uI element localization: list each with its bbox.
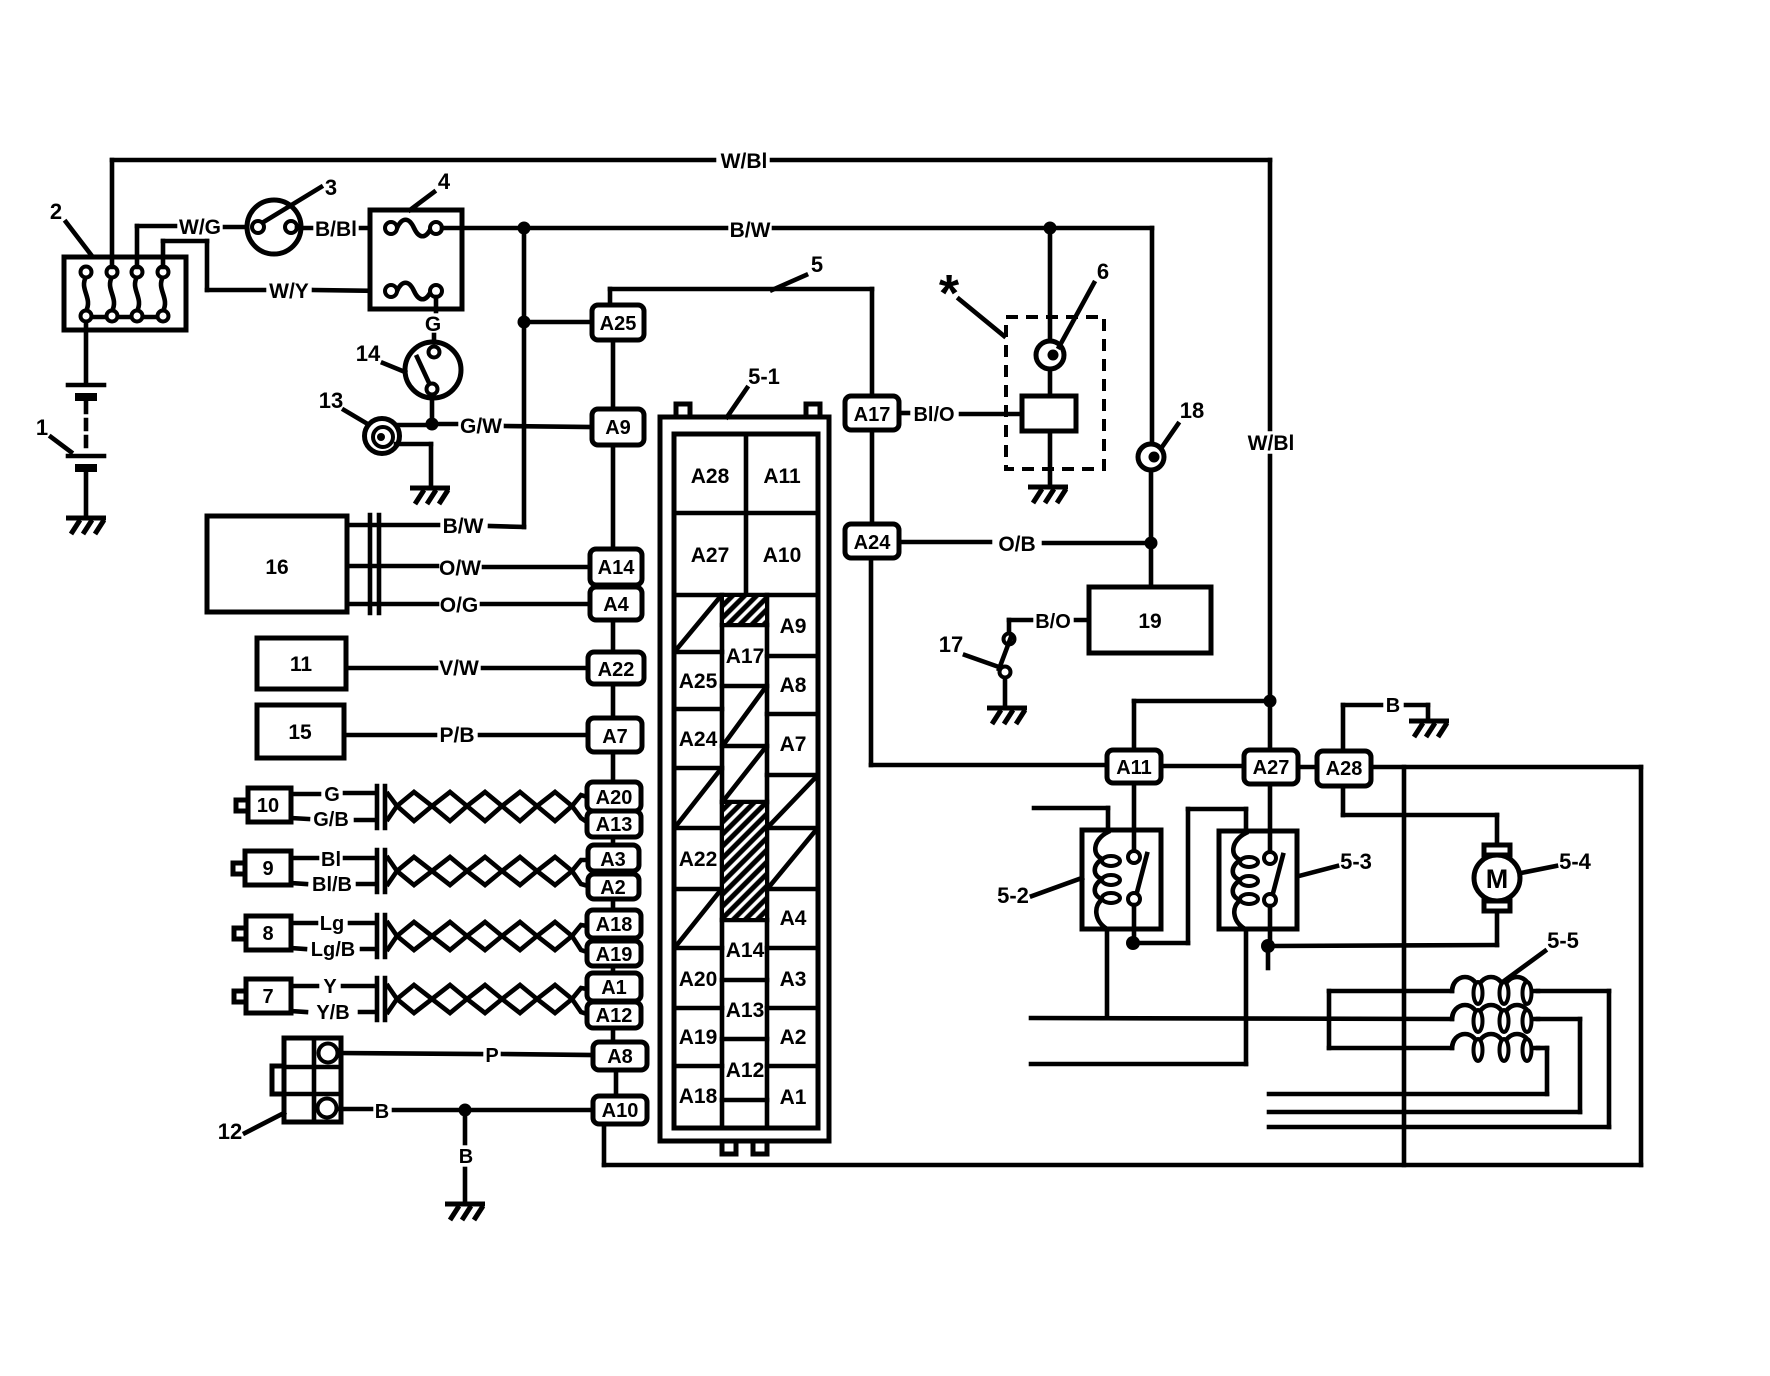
node Lg: [291, 913, 374, 935]
svg-text:A18: A18: [679, 1085, 718, 1108]
svg-text:A8: A8: [607, 1046, 633, 1068]
svg-text:A9: A9: [605, 417, 631, 439]
junction G/W: [426, 418, 439, 431]
node Bl/B: [291, 874, 374, 896]
resistor 5-5 row3: [1329, 1034, 1538, 1061]
svg-text:5-2: 5-2: [997, 883, 1029, 908]
twisted pair to A3/A2: [388, 857, 588, 886]
node B/O: [1009, 611, 1089, 633]
label 5-5: [1504, 928, 1579, 981]
ground (6): [1028, 487, 1068, 503]
connector A22: [588, 652, 644, 684]
battery 1: [68, 385, 104, 472]
wire to unit 19: [1149, 543, 1154, 587]
label 1: [36, 415, 71, 452]
svg-text:A11: A11: [1116, 757, 1152, 779]
node Lg/B: [291, 939, 374, 961]
connector A25: [592, 305, 644, 340]
svg-text:A20: A20: [596, 787, 633, 809]
wire 5-3 contact out: [1268, 906, 1497, 968]
node Bl: [291, 849, 374, 871]
svg-text:A3: A3: [780, 968, 807, 991]
svg-text:G: G: [425, 313, 441, 336]
wire 14 to junction: [430, 395, 435, 424]
connector A4: [590, 587, 642, 620]
twisted pair to A20/A13: [388, 792, 587, 822]
svg-text:A28: A28: [691, 465, 730, 488]
svg-text:A25: A25: [600, 313, 637, 335]
svg-text:16: 16: [265, 556, 288, 579]
wire 5-3 coil return: [1031, 929, 1246, 1064]
wire 18 to O/B: [1149, 470, 1154, 543]
connector block 5-1: [660, 404, 829, 1154]
ground (13): [410, 488, 450, 504]
svg-text:17: 17: [939, 632, 963, 657]
motor 5-4: [1474, 845, 1520, 911]
svg-text:13: 13: [319, 388, 343, 413]
wire P: [338, 1053, 593, 1055]
wire 13 to junction: [398, 423, 430, 428]
connector block 2: [64, 257, 186, 330]
connector A20: [587, 782, 641, 811]
connector A7: [588, 718, 642, 752]
svg-text:A14: A14: [598, 557, 636, 579]
svg-text:A28: A28: [1326, 758, 1363, 780]
wire O/W: [347, 566, 590, 567]
svg-text:A19: A19: [596, 944, 633, 966]
wire 13 to ground: [396, 444, 431, 485]
svg-text:A9: A9: [780, 615, 807, 638]
lamp 6: [1036, 341, 1064, 369]
svg-text:B: B: [1386, 695, 1400, 717]
junction O/B: [1145, 537, 1158, 550]
connector A12: [587, 1002, 641, 1028]
lamp 18: [1138, 444, 1164, 470]
connector A18: [587, 910, 641, 938]
svg-text:5-4: 5-4: [1559, 849, 1592, 874]
wire G/W: [432, 424, 592, 427]
svg-text:A22: A22: [598, 659, 635, 681]
unit 19: [1089, 587, 1211, 653]
wire motor feed: [1343, 786, 1497, 846]
switch 17: [999, 620, 1015, 706]
svg-text:Y: Y: [323, 976, 337, 998]
junction: [518, 316, 531, 329]
connector bar (8): [377, 915, 385, 957]
svg-text:A22: A22: [679, 848, 718, 871]
wire P/B: [344, 733, 588, 738]
svg-text:Lg/B: Lg/B: [311, 939, 355, 961]
label 6: [1059, 259, 1109, 347]
svg-text:9: 9: [262, 858, 273, 880]
svg-text:15: 15: [288, 721, 312, 744]
wire B: [337, 1109, 593, 1110]
svg-text:A1: A1: [780, 1086, 807, 1109]
connector bar (10): [377, 786, 385, 828]
label 5-1: [727, 364, 780, 417]
svg-text:A24: A24: [679, 728, 718, 751]
svg-text:5-5: 5-5: [1547, 928, 1579, 953]
wire motor return: [1495, 911, 1500, 945]
svg-text:A24: A24: [854, 532, 892, 554]
svg-text:A17: A17: [726, 645, 765, 668]
label 14: [356, 341, 405, 372]
node Y/B: [291, 1002, 374, 1024]
connector A1: [587, 973, 641, 1001]
svg-text:O/B: O/B: [998, 533, 1035, 556]
svg-text:Lg: Lg: [320, 913, 344, 935]
svg-text:5-3: 5-3: [1340, 849, 1372, 874]
label 12: [218, 1113, 284, 1144]
connector A10: [593, 1096, 647, 1124]
svg-text:4: 4: [438, 169, 451, 194]
connector A8: [593, 1042, 647, 1070]
svg-text:W/Bl: W/Bl: [1248, 432, 1295, 455]
wire to A11: [1134, 701, 1270, 750]
wire V/W: [346, 666, 588, 671]
svg-text:11: 11: [290, 653, 313, 676]
svg-text:M: M: [1486, 864, 1509, 894]
resistor 5-5 row2: [1452, 1005, 1538, 1032]
svg-text:5: 5: [811, 252, 823, 277]
resistor element (inside dashed box): [1022, 369, 1076, 485]
svg-text:A1: A1: [601, 977, 627, 999]
connector bar (9): [377, 850, 385, 892]
wire resistor row2 feed: [1031, 1018, 1452, 1019]
connector bar (7): [377, 978, 385, 1020]
connector A14: [590, 549, 642, 585]
svg-text:G/W: G/W: [460, 415, 502, 438]
wire battery feed: [84, 322, 89, 384]
svg-text:B/W: B/W: [730, 219, 771, 242]
svg-text:B/Bl: B/Bl: [315, 218, 357, 241]
unit 16: [207, 516, 347, 612]
svg-text:18: 18: [1180, 398, 1204, 423]
label 18: [1162, 398, 1204, 447]
svg-text:A10: A10: [602, 1100, 639, 1122]
junction W/Bl: [1264, 695, 1277, 708]
connector bar (16): [370, 515, 379, 613]
svg-text:A13: A13: [726, 999, 765, 1022]
connector A3: [588, 845, 639, 871]
svg-text:W/Y: W/Y: [269, 280, 309, 303]
svg-text:W/G: W/G: [179, 216, 221, 239]
connector A9: [592, 409, 644, 445]
svg-text:Bl: Bl: [321, 849, 341, 871]
connector A28: [1317, 751, 1371, 786]
node G/B: [291, 809, 374, 831]
wire row1 return: [1269, 991, 1609, 1127]
resistor 5-5 row1: [1329, 977, 1538, 1004]
svg-text:A2: A2: [600, 877, 626, 899]
junction: [518, 222, 531, 235]
node B/Bl: [297, 218, 385, 241]
wire 5-2 contact out: [1133, 809, 1246, 943]
svg-text:A19: A19: [679, 1026, 718, 1049]
svg-text:A4: A4: [603, 594, 629, 616]
svg-text:Bl/B: Bl/B: [312, 874, 352, 896]
switch 3: [247, 187, 321, 254]
svg-text:3: 3: [325, 175, 337, 200]
label 5: [772, 252, 823, 290]
ground (battery): [66, 518, 106, 534]
svg-text:A4: A4: [780, 907, 807, 930]
node Y: [291, 976, 374, 998]
wire 5-5 row1/row3 tie: [1327, 991, 1332, 1048]
label 5-4: [1521, 849, 1592, 874]
svg-text:B: B: [459, 1146, 473, 1168]
wire lamp 6 feed: [1048, 228, 1053, 341]
wire main bus: [604, 766, 1641, 1165]
svg-text:B: B: [375, 1101, 389, 1123]
junction B: [459, 1104, 472, 1117]
label 17: [939, 632, 996, 666]
connector A27: [1244, 750, 1298, 784]
svg-text:G/B: G/B: [313, 809, 349, 831]
svg-text:P: P: [485, 1045, 498, 1067]
svg-text:5-1: 5-1: [748, 364, 780, 389]
label 5-3: [1299, 849, 1372, 876]
svg-text:19: 19: [1138, 610, 1161, 633]
svg-text:6: 6: [1097, 259, 1109, 284]
junction 5-3: [1261, 939, 1275, 953]
junction: [1044, 222, 1057, 235]
connector 10: [236, 788, 291, 822]
svg-text:A7: A7: [602, 726, 628, 748]
connector A13: [587, 811, 641, 837]
node G: [291, 784, 374, 806]
wire A24 drop: [871, 558, 1107, 765]
wire battery to ground: [84, 472, 89, 516]
svg-text:A10: A10: [763, 544, 802, 567]
wire W/G: [137, 226, 252, 267]
wire row3 return: [1269, 1048, 1547, 1094]
junction 5-2: [1126, 936, 1140, 950]
svg-text:A14: A14: [726, 939, 765, 962]
svg-text:W/Bl: W/Bl: [721, 150, 768, 173]
svg-text:14: 14: [356, 341, 381, 366]
svg-text:7: 7: [262, 986, 273, 1008]
ground (B): [1409, 721, 1449, 737]
sensor 13: [365, 419, 400, 454]
svg-text:1: 1: [36, 415, 48, 440]
wire W/Bl vertical: [1268, 160, 1273, 750]
wire A17 to A24: [870, 430, 875, 524]
connector A19: [587, 941, 641, 966]
svg-text:10: 10: [257, 795, 279, 817]
unit 15: [257, 705, 344, 758]
connector 9: [233, 851, 291, 885]
svg-text:12: 12: [218, 1119, 242, 1144]
relay 5-2: [1082, 783, 1161, 929]
wire O/G: [347, 602, 590, 607]
svg-text:A20: A20: [679, 968, 718, 991]
svg-text:O/W: O/W: [439, 557, 481, 580]
svg-text:A25: A25: [679, 670, 718, 693]
svg-text:A12: A12: [596, 1005, 633, 1027]
svg-text:Y/B: Y/B: [316, 1002, 349, 1024]
svg-text:2: 2: [50, 199, 62, 224]
node Bl/O: [899, 404, 1022, 426]
wire lamp 18 feed: [1150, 228, 1155, 444]
svg-text:B/O: B/O: [1035, 611, 1071, 633]
node G: [425, 297, 441, 343]
connector 8: [234, 916, 291, 950]
svg-text:O/G: O/G: [440, 594, 479, 617]
unit 11: [257, 638, 346, 689]
ground (17): [987, 708, 1027, 724]
switch 14: [405, 342, 461, 398]
svg-text:A27: A27: [691, 544, 730, 567]
wire W/Y: [163, 241, 385, 291]
wire B/W top: [442, 226, 1152, 231]
wire row2 return: [1269, 1019, 1580, 1112]
connector A17: [845, 396, 899, 430]
svg-text:A18: A18: [596, 914, 633, 936]
twisted pair to A18/A19: [388, 922, 587, 952]
svg-text:A27: A27: [1253, 757, 1290, 779]
svg-text:A8: A8: [780, 674, 807, 697]
wire 5-2 coil return: [1105, 929, 1110, 1018]
fuse box 4: [370, 210, 462, 309]
wire B/W vertical: [347, 228, 592, 527]
svg-text:A3: A3: [600, 849, 626, 871]
svg-text:8: 8: [262, 923, 273, 945]
ground (B): [445, 1204, 485, 1220]
svg-text:P/B: P/B: [439, 724, 474, 747]
connector 12: [272, 1038, 341, 1122]
twisted pair to A1/A12: [388, 985, 587, 1014]
svg-text:A12: A12: [726, 1059, 765, 1082]
asterisk note: [939, 265, 1004, 336]
connector 7: [234, 979, 291, 1013]
svg-text:V/W: V/W: [439, 657, 479, 680]
svg-text:*: *: [939, 265, 960, 323]
connector A11: [1107, 750, 1161, 783]
svg-text:B/W: B/W: [443, 515, 484, 538]
wire relay 5-2 coil feed: [1034, 808, 1108, 831]
svg-text:A2: A2: [780, 1026, 807, 1049]
svg-text:Bl/O: Bl/O: [913, 404, 954, 426]
wire chain verticals: [613, 340, 616, 1096]
connector A24: [845, 524, 899, 558]
wire net 5: [610, 289, 872, 396]
node B (A28): [1343, 695, 1428, 751]
label 4: [410, 169, 451, 210]
resistor unit dashed box: [1006, 317, 1104, 469]
svg-text:A17: A17: [854, 404, 891, 426]
svg-text:A11: A11: [763, 465, 801, 488]
svg-text:A7: A7: [780, 733, 807, 756]
connector A2: [588, 874, 639, 899]
relay 5-3: [1219, 784, 1297, 929]
wire W/Bl top: [112, 160, 1270, 267]
wire O/B: [899, 542, 1151, 543]
label 5-2: [997, 878, 1082, 908]
label 13: [319, 388, 366, 423]
svg-text:G: G: [324, 784, 340, 806]
wire B to ground: [463, 1110, 468, 1202]
label 2: [50, 199, 92, 256]
svg-text:A13: A13: [596, 814, 633, 836]
